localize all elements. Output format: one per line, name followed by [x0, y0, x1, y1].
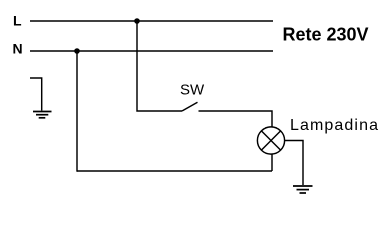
- wire from lamp bottom down: [271, 154, 273, 171]
- wire from switch to lamp top: [199, 111, 273, 127]
- svg-text:Lampadina: Lampadina: [290, 117, 379, 134]
- lamp X diagonal 1: [261, 131, 280, 150]
- ground right bar 2: [297, 189, 310, 191]
- ground left bar 3: [39, 117, 46, 119]
- ground left stub wire: [30, 78, 42, 111]
- wire from L junction down to switch: [137, 21, 182, 111]
- wire from lamp right to ground: [285, 141, 303, 186]
- node junction on N: [74, 48, 80, 54]
- ground right bar 1: [293, 185, 313, 187]
- ground left bar 2: [36, 114, 48, 116]
- lamp Lampadina circle: [257, 127, 284, 154]
- wire L line: [30, 20, 273, 22]
- svg-text:N: N: [13, 41, 23, 57]
- svg-text:SW: SW: [180, 81, 205, 98]
- switch SW blade: [182, 102, 198, 111]
- wire bottom return: [77, 170, 272, 172]
- wire from N junction down to bottom return: [76, 51, 78, 172]
- ground right bar 3: [300, 192, 307, 194]
- wire N line: [30, 50, 273, 52]
- svg-text:Rete 230V: Rete 230V: [283, 24, 369, 44]
- svg-text:L: L: [13, 13, 22, 29]
- node junction on L: [134, 18, 140, 24]
- lamp X diagonal 2: [261, 131, 280, 150]
- ground left bar 1: [33, 111, 52, 113]
